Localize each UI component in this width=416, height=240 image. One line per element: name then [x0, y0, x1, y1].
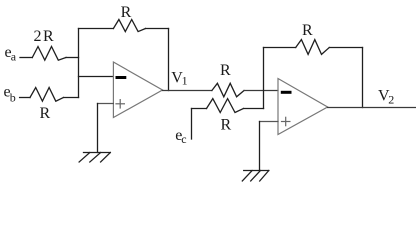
resistor R (V1 to U2) — [212, 83, 244, 97]
svg-text:R: R — [302, 22, 313, 39]
feedback wire right (resistor to output) — [329, 47, 362, 49]
ground 2 — [242, 171, 268, 182]
wire e_b to resistor R — [20, 97, 30, 99]
wire down to ground 1 — [97, 104, 99, 153]
svg-text:R: R — [220, 62, 231, 79]
label V_2 — [378, 88, 394, 107]
op-amp U1 — [113, 62, 162, 118]
ground 1 — [79, 153, 110, 163]
wire U2 non-inverting input to ground — [260, 121, 279, 123]
U1 minus sign — [117, 76, 125, 79]
svg-text:c: c — [181, 132, 186, 146]
wire e_a to resistor 2R — [20, 57, 32, 59]
feedback wire left (node to resistor R) — [79, 28, 114, 30]
resistor R (e_b input) — [30, 88, 64, 102]
resistor R (U2 feedback) — [296, 40, 330, 55]
feedback wire left (node 2 to resistor) — [264, 47, 296, 49]
wire e_c to resistor R — [192, 108, 207, 110]
wire U1 output (V1) to resistor R — [163, 90, 212, 92]
feedback vertical to V1 node — [168, 29, 170, 91]
op-amp U2 — [278, 79, 328, 135]
label e_b — [4, 84, 16, 105]
node vertical (summing node) — [78, 29, 80, 98]
U2 minus sign — [282, 91, 290, 94]
feedback vertical 2 to output — [362, 48, 364, 108]
resistor R (e_c input) — [207, 99, 244, 113]
wire resistor to U2 inverting input — [244, 90, 278, 92]
label V_1 — [171, 69, 187, 87]
svg-text:2: 2 — [388, 93, 394, 107]
U1 plus sign — [116, 100, 124, 108]
feedback wire right (resistor to V1 node) — [146, 28, 169, 30]
wire resistor R to input node — [64, 97, 79, 99]
svg-text:1: 1 — [182, 74, 188, 88]
wire e_c vertical — [191, 109, 193, 140]
label e_a — [5, 44, 17, 64]
node vertical 2 (U2 summing node) — [263, 48, 265, 109]
resistor R (U1 feedback) — [113, 20, 145, 32]
wire down to ground 2 — [259, 122, 261, 171]
wire resistor 2R to input node — [66, 57, 79, 59]
U2 plus sign — [282, 117, 290, 125]
svg-text:R: R — [40, 105, 51, 122]
wire resistor R to node 2 — [244, 108, 264, 110]
wire node to U1 inverting input — [79, 76, 114, 78]
resistor 2R — [32, 47, 66, 61]
svg-text:R: R — [121, 4, 132, 21]
svg-text:2R: 2R — [34, 28, 56, 45]
svg-text:b: b — [10, 90, 16, 104]
wire U2 output (V2) — [328, 107, 416, 109]
wire U1 non-inverting input to ground — [98, 103, 114, 105]
svg-text:R: R — [221, 117, 232, 134]
label e_c — [175, 127, 186, 146]
svg-text:a: a — [11, 50, 17, 64]
